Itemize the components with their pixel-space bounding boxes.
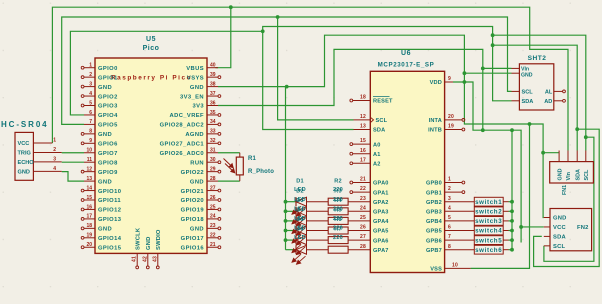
wire U6 VDD pin 9 to 3V3/VCC distribution (453, 82, 521, 243)
svg-text:GPIO12: GPIO12 (98, 208, 121, 214)
resistor R3 body (328, 208, 348, 215)
connector FN1 body (550, 162, 594, 183)
connector FN2 body (550, 209, 592, 251)
svg-text:GPIO16: GPIO16 (181, 245, 205, 251)
svg-text:18: 18 (360, 95, 366, 101)
svg-text:GND: GND (98, 85, 112, 91)
svg-text:32: 32 (210, 138, 216, 144)
svg-text:3V3: 3V3 (192, 104, 204, 110)
svg-text:GPIO19: GPIO19 (181, 208, 205, 214)
svg-text:5: 5 (89, 100, 92, 106)
svg-text:3V3_EN: 3V3_EN (180, 94, 204, 100)
svg-text:7: 7 (448, 234, 451, 240)
wire GPIO4 / SDA net: Pico pin6 feed (70, 31, 262, 115)
svg-text:13: 13 (360, 124, 366, 130)
svg-text:AGND: AGND (185, 132, 204, 138)
wire SDA fan to FN1 SDA (493, 45, 578, 150)
svg-text:41: 41 (132, 256, 138, 262)
svg-text:GPIO17: GPIO17 (181, 236, 204, 242)
wire HC-SR04 VCC to VBUS rail / FN1 VIn net (52, 7, 568, 150)
wire R4 to U6 GPA4 pin 25 (348, 220, 370, 222)
svg-text:10: 10 (452, 263, 458, 269)
svg-text:GND: GND (190, 227, 204, 233)
svg-text:D1: D1 (296, 179, 304, 185)
svg-text:R2: R2 (334, 179, 342, 185)
op-amp U5 Raspberry Pi Pico module body (95, 58, 207, 253)
U6 pins 1-8 GPB0-GPB7 (426, 177, 474, 254)
wire SCL loop to FN2 SCL (544, 137, 594, 261)
svg-text:A2: A2 (373, 162, 381, 168)
svg-text:GPIO1: GPIO1 (98, 75, 118, 81)
svg-text:26: 26 (210, 195, 216, 201)
svg-text:29: 29 (210, 166, 216, 172)
diode D5 LED (292, 236, 307, 255)
svg-text:ECHO: ECHO (18, 160, 35, 166)
svg-text:GPB1: GPB1 (426, 190, 442, 196)
FN1 pin names GND VIn SDA SCL rotated (557, 168, 590, 180)
svg-text:GPIO10: GPIO10 (98, 189, 121, 195)
svg-text:SDA: SDA (575, 169, 581, 180)
wire D1 to R2 (307, 201, 329, 203)
wire GND net from Pico pin 38 to FN2 GND (218, 35, 544, 217)
svg-text:40: 40 (210, 63, 216, 69)
svg-text:25: 25 (360, 215, 366, 221)
svg-text:GPIO20: GPIO20 (181, 198, 204, 204)
svg-text:9: 9 (89, 138, 92, 144)
svg-text:R7: R7 (334, 227, 342, 233)
svg-text:19: 19 (448, 124, 454, 130)
svg-text:8: 8 (448, 244, 451, 250)
svg-text:15: 15 (86, 195, 92, 201)
diode D3 LED (292, 216, 307, 235)
svg-text:GPA2: GPA2 (373, 200, 389, 206)
svg-text:GPIO22: GPIO22 (181, 170, 204, 176)
wire D3 to R4 (307, 220, 329, 222)
svg-text:SDA: SDA (553, 235, 566, 241)
U6 pin 13 SDA (354, 124, 386, 134)
svg-text:13: 13 (86, 176, 92, 182)
svg-text:RUN: RUN (190, 160, 204, 166)
svg-text:3: 3 (448, 196, 451, 202)
svg-text:3: 3 (53, 157, 56, 163)
svg-text:1: 1 (89, 63, 92, 69)
svg-text:22: 22 (360, 186, 366, 192)
wire SCL branch down to U6 SCL pin 12 (278, 17, 354, 120)
svg-text:U5: U5 (146, 36, 156, 43)
svg-text:25: 25 (210, 204, 216, 210)
node switch2 global label (474, 207, 508, 216)
svg-text:36: 36 (210, 100, 216, 106)
svg-text:1: 1 (53, 138, 56, 144)
svg-text:A1: A1 (373, 152, 381, 158)
U5 pins 1-20 left stubs numbers names (81, 63, 122, 252)
diode D4 LED (292, 226, 307, 245)
svg-text:VSS: VSS (430, 267, 442, 273)
svg-text:D5: D5 (296, 217, 304, 223)
FN2 pins GND VCC SDA SCL (544, 216, 567, 250)
resistor R2 body (328, 198, 348, 205)
svg-text:GPIO5: GPIO5 (98, 123, 118, 129)
wire GND to FN1 GND (543, 152, 559, 154)
svg-text:43: 43 (152, 256, 158, 262)
svg-text:VIn: VIn (566, 172, 572, 180)
svg-text:GPA3: GPA3 (373, 210, 389, 216)
svg-text:11: 11 (87, 157, 93, 163)
svg-text:GND: GND (553, 216, 566, 222)
R1 light arrows (224, 159, 235, 173)
svg-text:9: 9 (448, 76, 451, 82)
wire Pico GPIO26_ADC0 to R1 photoresistor top (218, 152, 240, 154)
wire R2 to U6 GPA2 pin 23 (348, 201, 370, 203)
wire LED anode stubs from bus (286, 201, 297, 203)
svg-text:GPA0: GPA0 (373, 181, 389, 187)
wire SDA loop to FN2 SDA (534, 129, 600, 266)
svg-text:2: 2 (89, 72, 92, 78)
svg-text:GPIO3: GPIO3 (98, 104, 118, 110)
svg-text:GND: GND (98, 132, 112, 138)
svg-text:GPIO28_ADC2: GPIO28_ADC2 (160, 123, 204, 129)
svg-text:switch3: switch3 (475, 218, 502, 225)
svg-text:4: 4 (448, 205, 451, 211)
U5 bottom pins 41 SWCLK 42 GND 43 SWDIO (132, 227, 162, 269)
HC-SR04 pins VCC TRIG ECHO GND (18, 138, 62, 176)
svg-text:27: 27 (210, 185, 216, 191)
svg-text:17: 17 (86, 214, 92, 220)
wire GPIO5 / SCL net: Pico pin7 to SHT2 SCL (62, 17, 512, 124)
svg-text:Pico: Pico (143, 45, 160, 52)
svg-text:14: 14 (86, 185, 92, 191)
resistor R5 body (328, 227, 348, 234)
wire D2 to R3 (307, 210, 329, 212)
svg-text:SDA: SDA (373, 128, 385, 134)
svg-text:15: 15 (360, 138, 366, 144)
svg-text:AD: AD (544, 99, 552, 105)
U6 pin 12 SCL (354, 114, 388, 124)
svg-text:SCL: SCL (584, 169, 590, 180)
svg-text:4: 4 (89, 91, 92, 97)
svg-text:16: 16 (86, 204, 92, 210)
svg-text:FN1: FN1 (562, 185, 568, 195)
svg-text:INTB: INTB (428, 128, 442, 134)
svg-text:42: 42 (142, 256, 148, 262)
wire R6 to U6 GPA6 pin 27 (348, 239, 370, 241)
svg-text:R4: R4 (334, 198, 342, 204)
wire Pico VBUS pin 40 riser (215, 7, 230, 67)
svg-text:GPIO0: GPIO0 (98, 66, 118, 72)
wire R7 to U6 GPA7 pin 28 (348, 249, 370, 251)
wire SDA trunk: U6 SDA pin13 up and across to SHT2 SDA (263, 27, 512, 130)
svg-text:R1: R1 (248, 156, 257, 162)
svg-text:26: 26 (360, 225, 366, 231)
svg-text:SCL: SCL (522, 90, 534, 96)
wire LED cathode bus (285, 87, 287, 250)
U6 pin 18 RESET (350, 95, 393, 105)
diode D6 LED (292, 245, 307, 264)
svg-text:GND: GND (190, 179, 204, 185)
svg-text:GPIO2: GPIO2 (98, 94, 118, 100)
resistor R6 body (328, 237, 348, 244)
svg-text:SDA: SDA (522, 99, 534, 105)
svg-text:18: 18 (86, 223, 92, 229)
svg-text:GPIO11: GPIO11 (98, 198, 121, 204)
svg-text:SHT2: SHT2 (528, 55, 547, 62)
svg-text:39: 39 (210, 72, 216, 78)
R1 leads (239, 153, 241, 157)
svg-text:U6: U6 (401, 50, 411, 57)
svg-text:33: 33 (210, 129, 216, 135)
svg-text:R5: R5 (334, 208, 342, 214)
svg-text:D3: D3 (296, 198, 304, 204)
wire R3 to U6 GPA3 pin 24 (348, 210, 370, 212)
svg-text:28: 28 (360, 244, 366, 250)
svg-text:D2: D2 (296, 188, 304, 194)
svg-text:3: 3 (89, 81, 92, 87)
svg-text:GPIO18: GPIO18 (181, 217, 205, 223)
op-amp U6 MCP23017-E_SP body (370, 71, 444, 272)
svg-text:GPIO15: GPIO15 (98, 245, 122, 251)
svg-text:10: 10 (86, 148, 92, 154)
svg-text:16: 16 (360, 148, 366, 154)
svg-text:17: 17 (360, 157, 366, 163)
node switch4 global label (474, 226, 508, 235)
svg-text:38: 38 (210, 81, 216, 87)
svg-text:6: 6 (448, 225, 451, 231)
wire switch label outputs to bus (509, 201, 513, 203)
svg-text:GPIO14: GPIO14 (98, 236, 122, 242)
svg-text:GPIO9: GPIO9 (98, 170, 118, 176)
svg-text:31: 31 (210, 148, 216, 154)
node switch5 global label (474, 236, 508, 245)
svg-text:34: 34 (210, 119, 216, 125)
svg-text:VBUS: VBUS (186, 66, 204, 72)
svg-text:21: 21 (360, 177, 366, 183)
svg-text:GND: GND (98, 179, 112, 185)
svg-text:R_Photo: R_Photo (248, 169, 274, 175)
svg-text:GND: GND (190, 85, 204, 91)
svg-text:ADC_VREF: ADC_VREF (170, 113, 205, 119)
svg-text:21: 21 (210, 242, 216, 248)
svg-text:RESET: RESET (373, 99, 393, 105)
svg-text:switch4: switch4 (475, 228, 502, 235)
svg-text:R6: R6 (334, 217, 342, 223)
svg-text:GPB3: GPB3 (426, 210, 442, 216)
svg-text:23: 23 (360, 196, 366, 202)
svg-text:GPIO21: GPIO21 (181, 189, 205, 195)
svg-text:GPA6: GPA6 (373, 238, 389, 244)
svg-text:GPA4: GPA4 (373, 219, 389, 225)
node switch6 global label (474, 245, 508, 254)
svg-text:22: 22 (210, 233, 216, 239)
svg-text:GND: GND (557, 168, 563, 180)
svg-text:R3: R3 (334, 188, 342, 194)
wire R5 to U6 GPA5 pin 26 (348, 230, 370, 232)
svg-text:switch5: switch5 (475, 237, 502, 244)
resistor R1 R_Photo body (236, 157, 243, 175)
svg-text:7: 7 (89, 119, 92, 125)
svg-text:D4: D4 (296, 208, 304, 214)
U6 pins 21-28 GPA0-GPA7 (350, 177, 389, 254)
svg-text:GPA5: GPA5 (373, 229, 389, 235)
SHT2 pins VIn GND SCL SDA AL AD (512, 66, 566, 105)
wire D6 to R7 (307, 249, 329, 251)
wire GND to SHT2 GND (464, 72, 511, 74)
resistor R7 body (328, 246, 348, 253)
wire HC-SR04 ECHO to Pico GPIO8 (62, 161, 84, 163)
wire SCL fan to FN1 SCL (493, 35, 586, 150)
svg-text:Raspberry Pi Pico: Raspberry Pi Pico (111, 75, 192, 82)
svg-text:GPIO27_ADC1: GPIO27_ADC1 (160, 142, 205, 148)
svg-text:VCC: VCC (18, 141, 30, 147)
svg-text:19: 19 (86, 233, 92, 239)
svg-text:1: 1 (448, 177, 451, 183)
svg-text:GPB0: GPB0 (426, 181, 442, 187)
svg-text:FN2: FN2 (577, 225, 589, 231)
wire D4 to R5 (307, 230, 329, 232)
svg-text:23: 23 (210, 223, 216, 229)
svg-text:20: 20 (448, 114, 454, 120)
svg-text:switch6: switch6 (475, 247, 502, 254)
svg-text:12: 12 (86, 166, 92, 172)
FN1 pin stubs (559, 151, 586, 162)
svg-text:GND: GND (146, 237, 152, 250)
svg-text:GND: GND (521, 72, 533, 78)
wire D5 to R6 (307, 239, 329, 241)
svg-text:27: 27 (360, 234, 366, 240)
U6 pin 9 VDD (430, 76, 453, 86)
U6 pins 15 16 17 A0 A1 A2 (350, 138, 381, 167)
svg-text:GPB4: GPB4 (426, 219, 443, 225)
svg-text:20: 20 (86, 242, 92, 248)
svg-text:35: 35 (210, 110, 216, 116)
svg-text:TRIG: TRIG (18, 151, 31, 157)
svg-text:GPB7: GPB7 (426, 248, 442, 254)
svg-text:AL: AL (545, 90, 553, 96)
svg-text:VSYS: VSYS (187, 75, 204, 81)
svg-text:37: 37 (210, 91, 216, 97)
wire HC-SR04 TRIG to Pico GPIO7 (62, 152, 84, 154)
svg-text:SWDIO: SWDIO (156, 229, 162, 250)
svg-text:GND: GND (98, 227, 112, 233)
svg-text:24: 24 (360, 205, 366, 211)
svg-text:A0: A0 (373, 142, 381, 148)
resistor R4 body (328, 217, 348, 224)
svg-text:GND: GND (18, 170, 30, 176)
svg-text:2: 2 (53, 147, 56, 153)
svg-text:6: 6 (89, 110, 92, 116)
svg-text:GPIO26_ADC0: GPIO26_ADC0 (160, 151, 204, 157)
svg-text:GPIO7: GPIO7 (98, 151, 118, 157)
svg-text:GPIO4: GPIO4 (98, 113, 118, 119)
svg-text:GPIO13: GPIO13 (98, 217, 122, 223)
svg-text:GPIO6: GPIO6 (98, 142, 118, 148)
wire switch common bus (511, 130, 513, 250)
svg-text:VDD: VDD (430, 80, 442, 86)
svg-text:GPA1: GPA1 (373, 190, 389, 196)
svg-text:switch2: switch2 (475, 209, 502, 216)
svg-text:SCL: SCL (376, 118, 388, 124)
svg-text:MCP23017-E_SP: MCP23017-E_SP (378, 62, 435, 69)
wire HC-SR04 GND to Pico GND pin 13 (62, 172, 84, 181)
U6 pins 20 19 INTA INTB (428, 114, 465, 134)
svg-text:LED: LED (294, 235, 306, 241)
svg-text:GPIO8: GPIO8 (98, 160, 118, 166)
svg-text:SWCLK: SWCLK (135, 227, 141, 250)
svg-text:HC-SR04: HC-SR04 (1, 120, 49, 129)
diode D2 LED (292, 207, 307, 226)
svg-text:12: 12 (360, 114, 366, 120)
junction dots LED bus (284, 200, 288, 204)
junction dots (229, 5, 233, 9)
svg-text:switch1: switch1 (475, 199, 502, 206)
U6 pin 10 VSS (430, 263, 470, 273)
node switch3 global label (474, 217, 508, 226)
svg-text:5: 5 (448, 215, 451, 221)
junction dots switch bus (510, 200, 514, 204)
svg-text:4: 4 (53, 166, 56, 172)
svg-text:SCL: SCL (553, 244, 565, 250)
svg-text:28: 28 (210, 176, 216, 182)
svg-text:GPB2: GPB2 (426, 200, 442, 206)
svg-text:D6: D6 (296, 227, 304, 233)
node switch1 global label (474, 197, 508, 206)
diode D1 LED (292, 197, 307, 216)
svg-text:INTA: INTA (429, 118, 442, 124)
wire GND loop to U6 VSS pin 10 (471, 124, 530, 268)
connector SHT2 body (519, 64, 553, 110)
connector HC-SR04 body (15, 132, 33, 180)
wire VCC to FN2 VCC (521, 226, 544, 228)
wire 3V3 to SHT2 VIn (483, 67, 512, 69)
wire R1 photoresistor bottom to Pico GND pin 28 (218, 180, 240, 182)
svg-text:30: 30 (210, 157, 216, 163)
svg-text:GPB5: GPB5 (426, 229, 442, 235)
svg-text:VCC: VCC (553, 225, 566, 231)
svg-text:2: 2 (448, 186, 451, 192)
svg-text:GPA7: GPA7 (373, 248, 389, 254)
wire 3V3 net from Pico pin 36 (218, 49, 483, 130)
svg-text:GPB6: GPB6 (426, 238, 442, 244)
svg-text:220: 220 (333, 235, 343, 241)
svg-text:24: 24 (210, 214, 216, 220)
svg-text:8: 8 (89, 129, 92, 135)
U5 pins 40-21 right stubs numbers names (160, 63, 221, 252)
